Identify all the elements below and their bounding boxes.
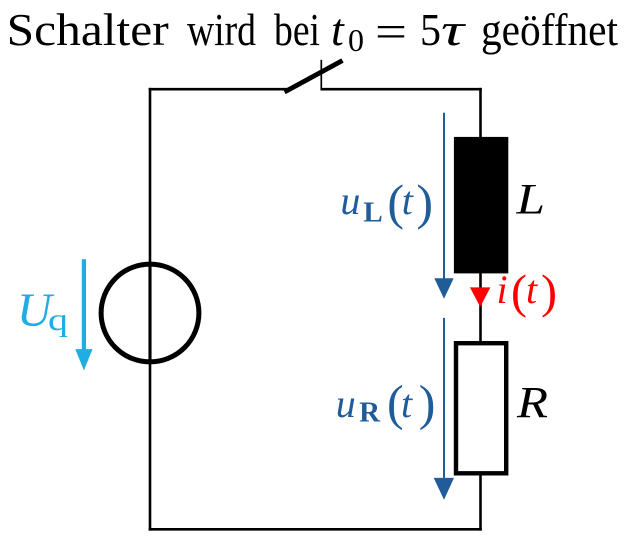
svg-text:t: t xyxy=(402,178,414,223)
svg-text:(: ( xyxy=(511,266,527,319)
arrow i (red, on right wire) xyxy=(470,287,491,307)
inductor L (filled rectangle) xyxy=(454,137,508,274)
wire top-left segment xyxy=(149,88,288,91)
resistor R (outlined rectangle) xyxy=(456,343,506,473)
svg-text:0: 0 xyxy=(348,22,364,58)
svg-text:u: u xyxy=(340,178,360,223)
svg-text:L: L xyxy=(515,177,545,224)
svg-text:u: u xyxy=(336,381,356,426)
label u_R(t) xyxy=(336,375,436,431)
svg-text:R: R xyxy=(359,397,381,429)
svg-text:wird: wird xyxy=(187,4,256,55)
svg-text:i: i xyxy=(497,267,508,312)
svg-text:): ) xyxy=(416,174,433,230)
switch S (open), lever and contact tick xyxy=(285,60,343,92)
svg-text:t: t xyxy=(331,4,345,55)
wire left side xyxy=(149,88,152,531)
voltage source U_q (circle, wire passes through) xyxy=(101,262,199,364)
svg-text:t: t xyxy=(401,381,413,426)
svg-text:5: 5 xyxy=(420,4,441,55)
svg-text:): ) xyxy=(541,266,557,319)
svg-text:): ) xyxy=(419,375,436,431)
wire right side xyxy=(479,88,482,531)
arrow u_L (dark blue, downward) xyxy=(434,113,453,299)
svg-text:q: q xyxy=(48,301,68,337)
title: Schalter wird bei t0 = 5tau geoeffnet xyxy=(7,4,618,58)
svg-text:τ: τ xyxy=(441,4,466,55)
arrow u_R (dark blue, downward) xyxy=(434,318,454,500)
arrow U_q (cyan, downward) xyxy=(75,259,92,370)
wire bottom xyxy=(149,528,482,531)
svg-text:geöffnet: geöffnet xyxy=(481,4,618,55)
svg-text:bei: bei xyxy=(274,4,320,55)
svg-text:=: = xyxy=(375,6,407,57)
svg-text:t: t xyxy=(526,267,538,312)
wire top-right segment xyxy=(321,88,482,91)
label U_q xyxy=(17,284,68,337)
svg-text:L: L xyxy=(363,196,382,228)
svg-text:R: R xyxy=(516,378,548,427)
label i(t) xyxy=(497,266,557,319)
svg-text:Schalter: Schalter xyxy=(7,4,169,55)
label u_L(t) xyxy=(340,174,433,230)
